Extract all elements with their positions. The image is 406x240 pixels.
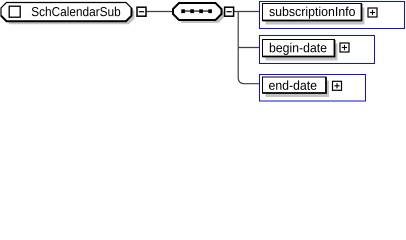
wire: curved elbow to end-date bbox=[238, 78, 260, 84]
element begin-date (row 2) bbox=[260, 36, 375, 64]
sequence compositor bbox=[173, 3, 225, 23]
collapse handle (minus) of sequence bbox=[225, 7, 234, 16]
element SchCalendarSub (root) bbox=[1, 3, 135, 25]
collapse handle (minus) of SchCalendarSub bbox=[137, 7, 146, 16]
element subscriptionInfo (row 1) bbox=[260, 2, 405, 29]
wire: vertical trunk from junction bbox=[237, 12, 239, 78]
wire: root to sequence bbox=[146, 11, 173, 13]
wire: branch to begin-date bbox=[238, 47, 260, 49]
element end-date (row 3) bbox=[260, 75, 366, 102]
wire: sequence handle to subscriptionInfo bbox=[234, 11, 260, 13]
